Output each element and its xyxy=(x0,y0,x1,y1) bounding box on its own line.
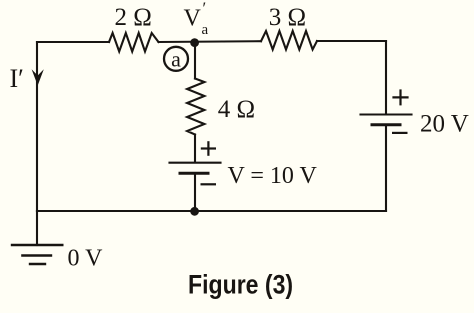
plus sign battery B2 xyxy=(392,89,408,105)
node dot a xyxy=(190,38,199,47)
svg-text:Figure (3): Figure (3) xyxy=(188,270,293,300)
svg-text:V = 10 V: V = 10 V xyxy=(228,163,318,189)
svg-text:I′: I′ xyxy=(10,64,24,93)
wire top-middle xyxy=(159,40,262,43)
svg-text:a: a xyxy=(171,47,181,72)
svg-text:V: V xyxy=(184,6,202,32)
svg-text:20 V: 20 V xyxy=(420,111,469,138)
ground bar 3 xyxy=(30,263,45,265)
wire left vertical xyxy=(36,42,38,211)
wire top-right horizontal xyxy=(317,40,386,42)
battery B2 20V short plate xyxy=(372,123,400,126)
wire middle branch lower xyxy=(194,175,196,212)
plus sign battery B1 xyxy=(201,141,216,156)
resistor R1 2ohm xyxy=(109,33,159,52)
minus sign battery B1 xyxy=(201,183,217,185)
battery B2 20V long plate xyxy=(361,113,412,115)
wire bottom horizontal xyxy=(37,210,386,212)
ground bar 2 xyxy=(22,254,51,256)
wire middle branch upper xyxy=(194,43,196,79)
node dot bottom junction xyxy=(190,207,199,216)
battery B1 10V long plate xyxy=(170,162,221,164)
svg-text:a: a xyxy=(202,22,209,38)
wire top-left horizontal xyxy=(37,41,109,43)
svg-text:2 Ω: 2 Ω xyxy=(115,4,152,31)
ground bar 1 xyxy=(12,244,62,246)
current arrow I' xyxy=(32,69,44,85)
resistor R3 4ohm vertical xyxy=(187,79,204,135)
wire right vertical upper xyxy=(385,41,387,114)
wire right vertical lower xyxy=(385,126,387,211)
ground stem xyxy=(36,211,38,245)
wire middle branch mid xyxy=(194,135,196,163)
svg-text:4 Ω: 4 Ω xyxy=(218,96,255,123)
battery B1 10V short plate xyxy=(180,172,208,175)
minus sign battery B2 xyxy=(392,132,408,134)
resistor R2 3ohm xyxy=(261,31,317,50)
svg-text:0 V: 0 V xyxy=(68,246,104,272)
node circle a xyxy=(164,47,188,71)
svg-text:′: ′ xyxy=(203,0,207,18)
svg-text:3 Ω: 3 Ω xyxy=(269,4,306,31)
